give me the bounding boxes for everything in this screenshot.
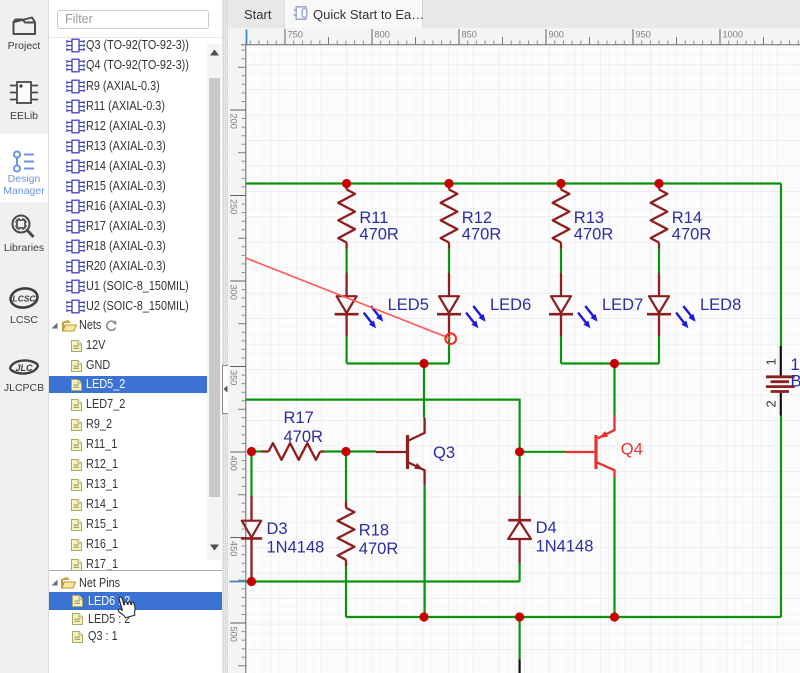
wire right rail upper (to battery +) [780, 184, 782, 347]
ruler baselines [241, 45, 800, 673]
wire LED6 cathode to bus [448, 336, 450, 364]
junction D3 cathode [247, 577, 256, 586]
svg-text:1000: 1000 [723, 30, 743, 40]
svg-text:R12: R12 [462, 209, 492, 227]
junction LED78 bus [610, 359, 619, 368]
wire R11 to LED5 [346, 249, 348, 274]
svg-text:470R: 470R [462, 226, 502, 244]
svg-text:1N4148: 1N4148 [536, 538, 594, 556]
transistor Q3 [376, 418, 425, 485]
svg-text:LED8: LED8 [700, 296, 741, 314]
junction rail-R11 [342, 179, 351, 188]
wire top +12V rail [246, 182, 781, 184]
transistor Q4 (selected) [566, 415, 615, 478]
wire bottom emitter rail [346, 616, 781, 618]
junction LED56 bus [419, 359, 428, 368]
svg-text:900: 900 [549, 30, 564, 40]
wire LED5 cathode to bus [346, 336, 348, 364]
wire rubber-band (being drawn) [246, 258, 451, 339]
svg-text:Q3: Q3 [433, 444, 455, 462]
svg-text:LED5: LED5 [388, 296, 429, 314]
svg-text:950: 950 [636, 30, 651, 40]
svg-text:JLC: JLC [15, 363, 33, 373]
svg-text:1: 1 [764, 358, 779, 365]
svg-text:350: 350 [229, 370, 239, 385]
junction node B4 [515, 447, 524, 456]
LED LED5 [335, 273, 359, 336]
tree panel [49, 0, 222, 673]
diode D3 [241, 496, 262, 582]
svg-text:D3: D3 [267, 520, 288, 538]
node snap target ring on LED6 cathode [445, 333, 456, 344]
LED LED8 [647, 273, 671, 336]
svg-text:R18: R18 [359, 522, 389, 540]
LED LED7 [549, 273, 573, 336]
tab bar [228, 0, 800, 29]
LED LED7 light arrows [578, 306, 598, 328]
svg-text:500: 500 [229, 627, 239, 642]
wire stub LED bus to Q3 collector [423, 364, 425, 418]
svg-text:470R: 470R [574, 226, 614, 244]
svg-text:LED7: LED7 [602, 296, 643, 314]
wire node B1 to R17 [252, 450, 262, 452]
svg-text:Q4: Q4 [621, 441, 643, 459]
vertical ruler ticks [230, 110, 246, 623]
wire LED7/LED8 cathode bus [561, 362, 659, 364]
svg-text:12V: 12V [791, 356, 800, 374]
svg-text:400: 400 [229, 456, 239, 471]
svg-text:1N4148: 1N4148 [267, 539, 325, 557]
wire node B4 down to D4 [518, 452, 520, 495]
wire Q4 collector to bottom rail [613, 478, 615, 618]
svg-text:D4: D4 [536, 519, 557, 537]
wire node B3 to Q3 base [346, 450, 376, 452]
LED LED8 light arrows [676, 306, 696, 328]
svg-text:450: 450 [229, 541, 239, 556]
svg-text:R13: R13 [574, 209, 604, 227]
diode D4 [508, 495, 531, 563]
wire LED7 cathode to bus [560, 336, 562, 364]
junction rail-R12 [444, 179, 453, 188]
svg-text:850: 850 [462, 30, 477, 40]
wire node B1 down to D3 [250, 452, 252, 497]
svg-text:R11: R11 [359, 209, 388, 227]
junction node B3 [341, 447, 350, 456]
wire R17 to node B3 [325, 450, 347, 452]
wire ground stub pin (black) [518, 660, 520, 673]
wire D3-D4 cathode wire [246, 580, 520, 582]
wire R18 to bottom rail [345, 566, 347, 617]
svg-text:R17: R17 [284, 409, 314, 427]
svg-text:470R: 470R [359, 540, 399, 558]
resistor R11 [338, 184, 355, 249]
splitter [222, 0, 228, 673]
svg-text:BT1: BT1 [791, 373, 800, 391]
wire stub LED bus to Q4 emitter [613, 364, 615, 416]
junction bottom rail gnd [515, 612, 524, 621]
junction rail-R13 [556, 179, 565, 188]
wire R12 to LED6 [448, 249, 450, 274]
canvas + rulers [228, 28, 800, 673]
left icon sidebar [0, 0, 49, 673]
LED LED5 light arrows [364, 306, 384, 328]
wire R14 to LED8 [658, 249, 660, 274]
wire LED5/LED6 cathode bus [347, 362, 449, 364]
svg-text:470R: 470R [672, 226, 712, 244]
junction rail-R14 [654, 179, 663, 188]
ruler cursor marker (x) [246, 30, 248, 45]
junction bottom rail Q3 [419, 612, 428, 621]
resistor R12 [441, 184, 458, 249]
wire D4 anode drop [518, 563, 520, 582]
svg-text:470R: 470R [284, 428, 324, 446]
svg-text:470R: 470R [359, 226, 399, 244]
svg-text:LED6: LED6 [490, 296, 531, 314]
LED LED6 light arrows [466, 306, 486, 328]
wire Q3 emitter to bottom rail [424, 485, 426, 617]
svg-text:200: 200 [229, 114, 239, 129]
wire R13 to LED7 [560, 249, 562, 274]
ruler cursor marker (y) [230, 581, 246, 583]
cursor [113, 595, 139, 623]
junction bottom rail Q4 [610, 612, 619, 621]
wire LED8 cathode to bus [658, 336, 660, 364]
svg-text:250: 250 [229, 199, 239, 214]
wire node B3 down to R18 [345, 452, 347, 502]
battery BT1 12V [766, 346, 795, 416]
junction node B1 [247, 447, 256, 456]
LED LED6 [437, 273, 461, 336]
svg-text:800: 800 [375, 30, 390, 40]
wire right rail lower (from battery -) [780, 416, 782, 618]
wire base feed wire to node B4 [246, 400, 520, 452]
svg-text:300: 300 [229, 285, 239, 300]
svg-text:R14: R14 [672, 209, 702, 227]
wire ground stub [518, 617, 520, 660]
resistor R13 [553, 184, 570, 249]
resistor R14 [651, 184, 668, 249]
resistor R17 [261, 443, 325, 460]
wire node B4 to Q4 base [520, 451, 566, 453]
svg-text:LCSC: LCSC [12, 294, 36, 304]
svg-text:750: 750 [288, 30, 303, 40]
svg-text:2: 2 [764, 400, 779, 407]
horizontal ruler ticks [285, 29, 720, 45]
resistor R18 [338, 502, 355, 567]
